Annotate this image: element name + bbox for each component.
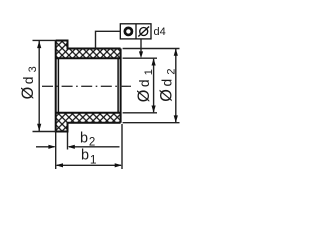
tolerance frame box [120, 24, 151, 39]
part outline [56, 41, 121, 132]
dimension Od3 extension lines [33, 40, 57, 131]
dimension b1 with arrows [56, 163, 122, 167]
body bottom wall section (hatched) [68, 113, 121, 123]
svg-text:d4: d4 [154, 26, 166, 38]
leader arrow from frame bottom to bore extension line [139, 39, 143, 58]
bore chamfer edge right [117, 58, 119, 113]
bore chamfer edge left [57, 58, 59, 113]
flange bottom wall section (hatched) [56, 113, 68, 132]
dimension Od1/Od2 extension lines right [123, 49, 180, 123]
concentricity symbol [125, 28, 132, 35]
dimension Od1 line with arrows [152, 58, 156, 113]
dimension Od3 line with arrows [37, 41, 41, 131]
dimension b2 (outside arrows) [36, 145, 120, 149]
centerline (dash-dot) [42, 85, 131, 87]
dimension Od2 line with arrows [174, 49, 178, 123]
b2/b1 extension lines [56, 124, 122, 169]
flange top wall section (hatched) [56, 41, 68, 59]
leader from frame to outer surface (datum side) [96, 31, 121, 48]
diameter symbol in frame [138, 27, 149, 37]
body top wall section (hatched) [68, 49, 121, 59]
